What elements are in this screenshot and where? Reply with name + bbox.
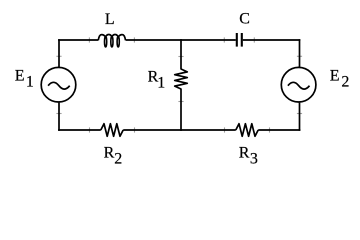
pin tick	[297, 55, 302, 57]
pin tick	[133, 37, 135, 42]
inductor L coil	[98, 35, 105, 41]
resistor R3 zigzag	[236, 124, 258, 137]
svg-text:2: 2	[341, 74, 349, 91]
svg-text:R: R	[104, 144, 115, 161]
svg-text:E: E	[330, 68, 340, 85]
capacitor C right plate	[241, 33, 243, 47]
source E1 sine wave	[48, 82, 70, 89]
svg-text:E: E	[15, 68, 25, 85]
resistor R1 zigzag	[175, 69, 188, 89]
resistor R2 zigzag	[101, 124, 123, 137]
wire middle branch top (node to R1)	[180, 39, 182, 69]
svg-text:C: C	[239, 11, 250, 28]
svg-text:R: R	[239, 144, 250, 161]
wire left vertical bottom (E1 bottom to bottom rail)	[58, 103, 60, 131]
pin tick	[224, 127, 226, 132]
pin tick	[56, 55, 61, 57]
wire right vertical top (top rail to E2 top)	[299, 39, 301, 67]
pin tick	[253, 37, 255, 42]
wire top rail right segment	[243, 39, 300, 41]
pin tick	[223, 37, 225, 42]
source E2 circle	[281, 67, 316, 102]
wire right vertical bottom (E2 bottom to bottom rail)	[299, 103, 301, 131]
svg-text:L: L	[105, 11, 115, 28]
pin tick	[297, 113, 302, 115]
capacitor C left plate	[236, 33, 238, 47]
pin tick	[88, 37, 90, 42]
wire left vertical top (E1 top to top rail)	[58, 39, 60, 67]
svg-text:1: 1	[26, 74, 34, 91]
svg-text:1: 1	[157, 75, 165, 92]
svg-text:3: 3	[250, 150, 258, 167]
wire bottom rail right segment	[258, 129, 300, 131]
wire top rail middle segment	[126, 39, 236, 41]
wire middle branch bottom (R1 to bottom rail)	[180, 89, 182, 131]
pin tick	[269, 127, 271, 132]
pin tick	[178, 101, 183, 103]
pin tick	[134, 127, 136, 132]
wire bottom rail left segment	[58, 129, 101, 131]
pin tick	[89, 127, 91, 132]
source E2 sine wave	[288, 82, 310, 89]
wire top rail left segment	[58, 39, 98, 41]
svg-text:2: 2	[114, 150, 122, 167]
pin tick	[178, 56, 183, 58]
pin tick	[56, 113, 61, 115]
source E1 circle	[41, 67, 76, 102]
wire bottom rail middle segment	[123, 129, 236, 131]
